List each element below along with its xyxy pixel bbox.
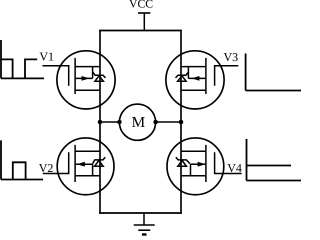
drain stub V4 <box>181 150 206 152</box>
wire bottom rail <box>99 212 182 214</box>
substrate stub V4 with arrow <box>191 163 206 165</box>
transistor V2 (N-MOSFET bottom-left) <box>57 138 114 195</box>
channel bar V4 <box>205 145 207 182</box>
svg-text:VCC: VCC <box>129 0 153 11</box>
svg-text:M: M <box>132 114 146 131</box>
junction dot left leg <box>98 120 103 125</box>
body diode V4 <box>176 157 190 163</box>
waveform graph for V3 (constant low) <box>246 54 301 91</box>
body diode V2 <box>93 157 106 163</box>
wire motor left <box>100 121 119 123</box>
connector substrate-source V2 <box>92 164 94 176</box>
substrate stub V1 with arrow <box>75 77 93 79</box>
waveform graph for V2 (narrow PWM pulse) <box>1 140 43 179</box>
wire gate lead V3 <box>215 66 239 86</box>
wire gate lead V2 <box>43 152 69 173</box>
svg-text:V3: V3 <box>224 50 239 64</box>
wire top rail <box>99 30 182 32</box>
transistor V3 (P-MOSFET top-right, mirror of V1) <box>166 51 224 109</box>
connector drain-substrate V1 <box>92 67 94 79</box>
power symbol VCC bar <box>138 12 150 14</box>
source stub V4 <box>181 175 206 177</box>
junction dot right leg <box>179 120 184 125</box>
transistor V1 (P-MOSFET top-left) <box>57 51 115 109</box>
svg-text:V4: V4 <box>227 161 242 175</box>
wire left leg <box>99 30 101 214</box>
wire VCC lead <box>143 13 145 31</box>
connector substrate-source V4 <box>190 164 192 176</box>
drain stub V1 <box>75 66 100 68</box>
junction dot motor left terminal <box>117 120 122 125</box>
drain stub V2 <box>75 150 100 152</box>
channel bar V2 <box>74 145 76 182</box>
waveform graph for V1 (wide PWM pulses) <box>1 40 44 78</box>
channel bar V1 <box>74 58 76 94</box>
ground <box>134 225 155 235</box>
substrate stub V2 with arrow <box>75 163 93 165</box>
source stub V2 <box>75 175 100 177</box>
body diode V1 <box>93 72 106 78</box>
wire motor right <box>156 121 181 123</box>
junction dot motor right terminal <box>153 120 158 125</box>
motor M <box>119 104 155 140</box>
source stub V1 <box>75 89 100 91</box>
transistor V4 (N-MOSFET bottom-right) <box>167 138 224 195</box>
wire right leg <box>180 30 182 214</box>
wire ground lead <box>143 213 145 225</box>
svg-text:V2: V2 <box>39 161 54 175</box>
wire gate lead V4 <box>215 152 242 173</box>
wire gate lead V1 <box>43 66 69 86</box>
svg-text:V1: V1 <box>39 50 54 64</box>
waveform graph for V4 (constant high) <box>247 139 302 181</box>
